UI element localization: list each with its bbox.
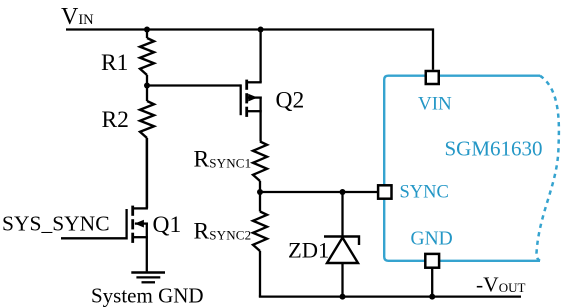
wire junction to Q2 gate [147, 84, 241, 86]
wire RSYNC2 to bottom rail [259, 251, 261, 297]
resistor RSYNC1 [253, 142, 267, 182]
ground System GND symbol [131, 273, 165, 283]
svg-text:VIN: VIN [418, 94, 452, 115]
node junction dot RSYNC1/RSYNC2/SYNC [257, 189, 263, 195]
node junction dot ZD1 bottom rail [340, 294, 346, 300]
svg-text:VIN: VIN [61, 4, 94, 30]
svg-text:Q2: Q2 [276, 87, 305, 113]
transistor Q1 (N-MOSFET) [61, 138, 148, 271]
svg-text:RSYNC2: RSYNC2 [194, 219, 252, 245]
resistor RSYNC2 [253, 212, 267, 252]
diode ZD1 (zener) [324, 192, 359, 297]
svg-text:Q1: Q1 [153, 212, 182, 238]
wire GND pin to bottom rail [431, 269, 433, 297]
wire R2 bottom to Q1 drain [146, 138, 148, 208]
svg-text:SGM61630: SGM61630 [445, 137, 543, 161]
resistor R1 [140, 38, 154, 75]
svg-text:System GND: System GND [91, 284, 204, 307]
wire junction to SYNC pin [260, 191, 377, 193]
node junction dot top rail / R1 [144, 27, 150, 33]
wire rail to R1 [146, 30, 148, 39]
resistor R2 [140, 101, 154, 138]
pin SYNC square [378, 185, 391, 198]
wire top rail from VIN to IC pin corner [66, 30, 433, 70]
wire RSYNC1 to junction [259, 181, 261, 212]
pin VIN square [426, 71, 439, 84]
transistor Q2 (P-MOSFET) [241, 30, 262, 142]
IC SGM61630 box outline [384, 76, 540, 261]
svg-text:-VOUT: -VOUT [476, 272, 525, 296]
wire bottom rail [259, 295, 521, 297]
svg-text:R2: R2 [102, 107, 129, 133]
svg-text:SYS_SYNC: SYS_SYNC [2, 211, 110, 235]
svg-text:SYNC: SYNC [400, 182, 449, 202]
svg-text:R1: R1 [101, 50, 128, 76]
wire R1 bottom to junction [146, 75, 148, 101]
pin GND square [425, 254, 439, 268]
IC torn edge dashed curve [536, 76, 558, 261]
node junction dot top rail / Q2 drain [258, 27, 264, 33]
node junction dot R1/R2/Q2 gate [144, 83, 150, 89]
svg-text:RSYNC1: RSYNC1 [194, 147, 252, 173]
svg-text:ZD1: ZD1 [288, 238, 329, 263]
node junction dot GND bottom rail [429, 294, 435, 300]
svg-text:GND: GND [411, 229, 453, 250]
node junction dot ZD1 top [340, 189, 346, 195]
